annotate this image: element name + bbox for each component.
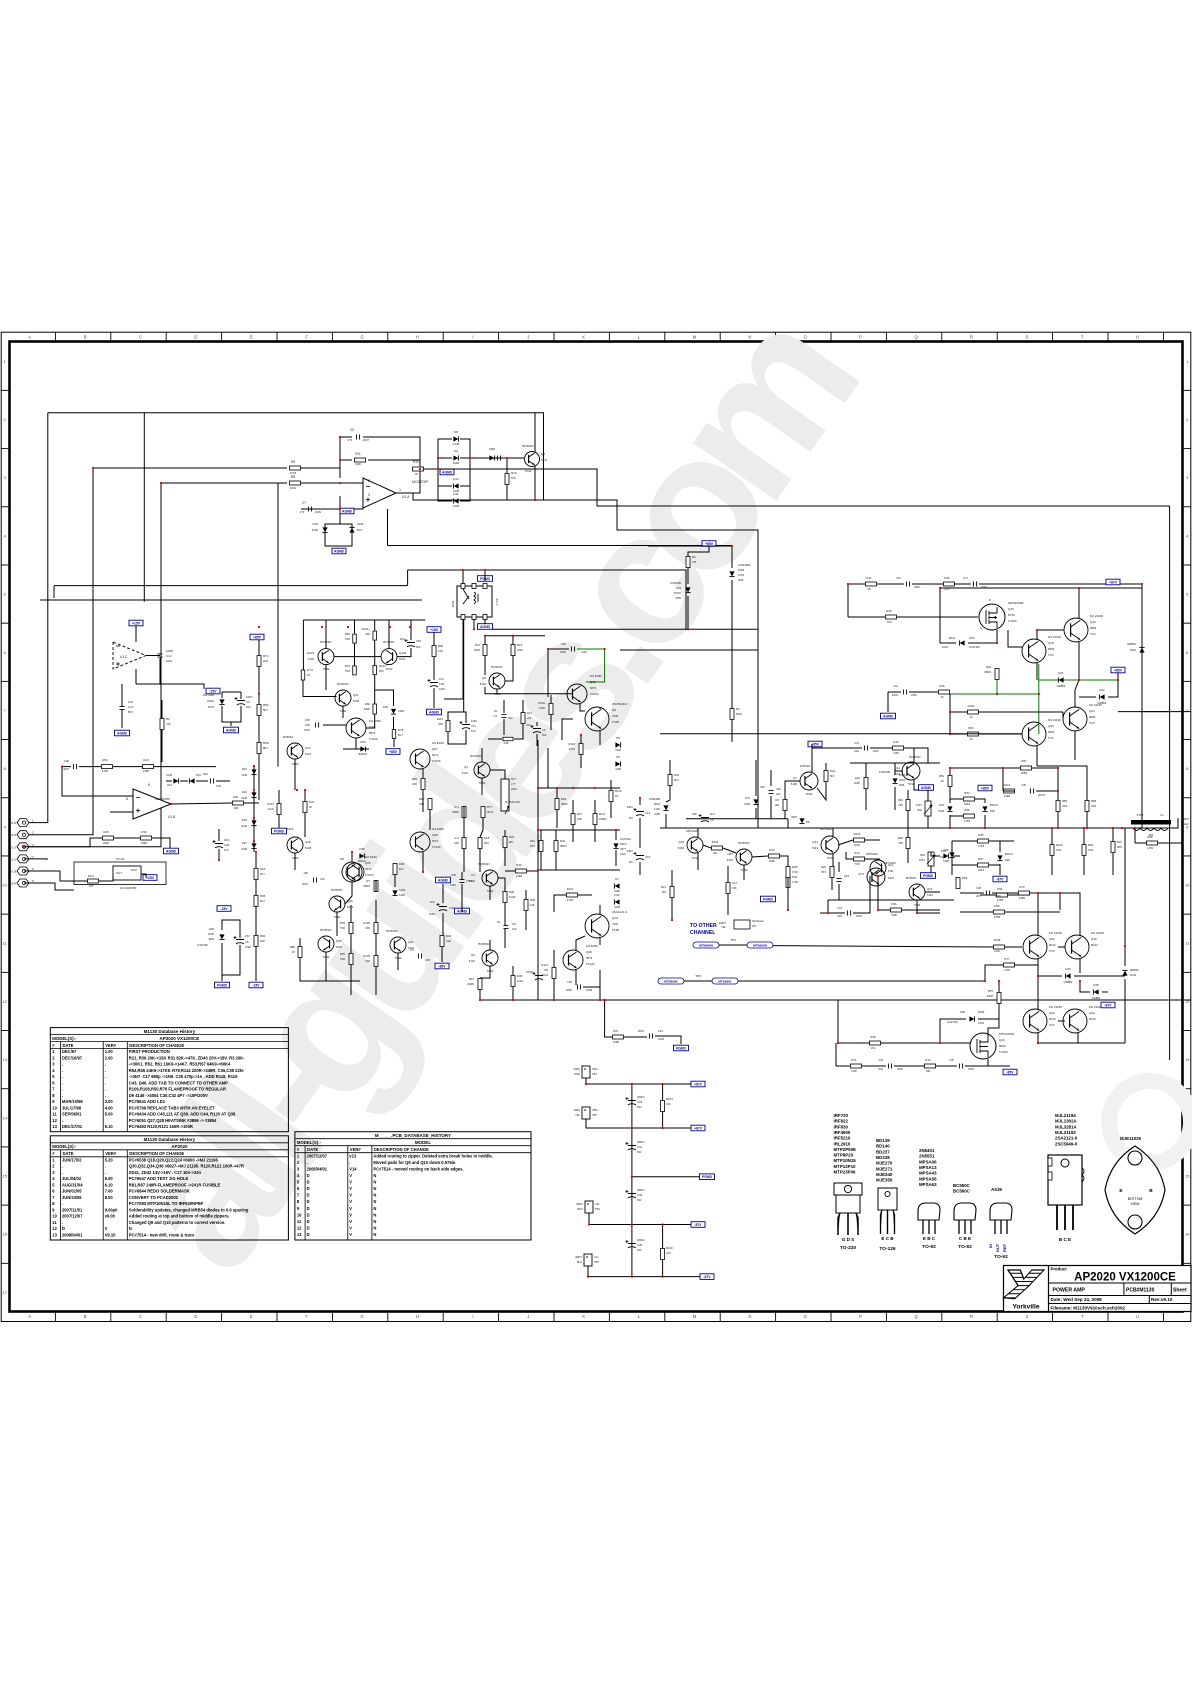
svg-text:R67: R67 — [613, 1029, 619, 1033]
capacitor C4 — [502, 714, 507, 717]
svg-text:18V0: 18V0 — [899, 778, 906, 782]
net label AGND ZD40 — [224, 727, 239, 733]
svg-text:G: G — [360, 334, 363, 339]
package TO-92 (CBE) — [954, 1203, 976, 1220]
svg-text:R51: R51 — [939, 774, 945, 778]
svg-text:63V: 63V — [637, 1248, 642, 1252]
svg-text:AGND: AGND — [334, 549, 345, 553]
svg-text:R11: R11 — [355, 452, 361, 456]
svg-text:V: V — [349, 1180, 352, 1185]
svg-text:U1.C: U1.C — [120, 655, 128, 659]
svg-text:R74: R74 — [263, 654, 269, 658]
wire L1 — [463, 806, 465, 826]
svg-text:BC560C: BC560C — [906, 876, 917, 880]
svg-text:DEC/17/01: DEC/17/01 — [62, 1124, 83, 1129]
svg-text:C4: C4 — [471, 873, 475, 877]
svg-text:8K7: 8K7 — [830, 774, 835, 778]
svg-text:R49: R49 — [986, 665, 992, 669]
svg-text:Added routing to zipper. Delet: Added routing to zipper. Deleted extra b… — [373, 1153, 492, 1158]
svg-text:G: G — [980, 626, 982, 630]
svg-text:1K: 1K — [414, 472, 418, 476]
svg-text:6R10: 6R10 — [1089, 1017, 1096, 1021]
svg-text:JUN/17/02: JUN/17/02 — [62, 1157, 82, 1162]
transistor Q18b MJ21196 — [1022, 639, 1046, 663]
svg-text:TP9: TP9 — [730, 938, 736, 942]
svg-text:C3: C3 — [710, 818, 714, 822]
svg-text:R73: R73 — [925, 1058, 931, 1062]
svg-text:4148: 4148 — [453, 504, 460, 508]
svg-text:2N5401: 2N5401 — [919, 1148, 935, 1153]
capacitor C14 — [120, 706, 125, 709]
svg-text:1?W: 1?W — [886, 620, 892, 624]
wire R116 left drop — [53, 586, 55, 598]
svg-text:D38: D38 — [359, 847, 365, 851]
wire R44 R52 — [907, 790, 909, 799]
svg-text:Q12: Q12 — [894, 766, 900, 770]
svg-text:R81,R87 249R-FLAMEPROOF ->241R: R81,R87 249R-FLAMEPROOF ->241R FUSIBLE — [129, 1182, 221, 1187]
svg-text:TO OTHER: TO OTHER — [690, 923, 717, 929]
svg-text:10R: 10R — [438, 722, 443, 726]
resistor R10 — [143, 765, 154, 769]
resistor R18b — [478, 838, 482, 849]
diode D9b — [799, 818, 804, 823]
capacitor C23 — [649, 1034, 652, 1039]
transistor Q27 MJE340 — [410, 749, 430, 769]
wire Q col1 — [688, 546, 709, 556]
resistor R34b — [769, 854, 780, 858]
svg-text:TO3: TO3 — [1090, 632, 1096, 636]
svg-text:16V: 16V — [471, 729, 476, 733]
svg-text:JUN/23/06: JUN/23/06 — [62, 1195, 82, 1200]
resistor R90 — [353, 634, 357, 643]
svg-text:6U7: 6U7 — [710, 812, 715, 816]
capacitor C5 — [236, 939, 244, 941]
svg-text:4148: 4148 — [453, 442, 460, 446]
svg-text:C43, D46. ADD TAB TO CONNECT T: C43, D46. ADD TAB TO CONNECT TO OTHER AM… — [129, 1080, 228, 1085]
svg-text:1K: 1K — [969, 737, 972, 741]
svg-text:47K: 47K — [166, 722, 171, 726]
svg-text:C109: C109 — [399, 888, 406, 892]
svg-text:BC560C: BC560C — [478, 862, 490, 866]
svg-text:7004: 7004 — [612, 922, 619, 926]
svg-text:160V: 160V — [968, 1067, 974, 1071]
svg-text:Q20: Q20 — [1048, 724, 1054, 728]
svg-text:R92: R92 — [365, 702, 371, 706]
wire M — [580, 735, 582, 743]
svg-text:10R: 10R — [438, 649, 443, 653]
svg-text:5102: 5102 — [480, 682, 487, 686]
svg-text:50V: 50V — [128, 710, 133, 714]
zener ZD40 1N4745A — [219, 699, 224, 704]
svg-text:100M: 100M — [166, 649, 174, 653]
capacitor C38 — [986, 891, 989, 896]
svg-text:17K8: 17K8 — [964, 819, 971, 823]
svg-text:6168: 6168 — [943, 859, 949, 863]
svg-text:R55: R55 — [978, 833, 984, 837]
diode D28 BAV21 — [982, 806, 987, 811]
svg-text:16V2: 16V2 — [942, 645, 949, 649]
svg-text:5101: 5101 — [399, 657, 406, 661]
resistor R103b — [1050, 845, 1054, 856]
svg-text:R35: R35 — [509, 890, 515, 894]
resistor R67 — [613, 1035, 624, 1039]
zener ZD41L — [663, 805, 668, 810]
svg-text:IRF4905: IRF4905 — [834, 1130, 851, 1135]
diode ladder D27 — [251, 843, 256, 848]
svg-text:24R6: 24R6 — [143, 769, 150, 773]
svg-text:D: D — [307, 1232, 310, 1237]
svg-text:Added routing at top and botto: Added routing at top and bottom of middl… — [129, 1214, 230, 1219]
svg-text:R96: R96 — [891, 902, 897, 906]
svg-text:PRB: PRB — [891, 913, 897, 917]
net label PGND R — [674, 1045, 689, 1051]
svg-text:4N7: 4N7 — [976, 894, 981, 898]
svg-text:R53: R53 — [964, 791, 970, 795]
relay K1-A — [457, 586, 492, 617]
svg-text:04R: 04R — [454, 841, 459, 845]
resistor R7 — [481, 807, 485, 818]
svg-text:MRB54: MRB54 — [1130, 968, 1139, 972]
table M1130 Database History (top) — [50, 1028, 288, 1132]
svg-text:D13: D13 — [167, 783, 172, 787]
svg-text:R120: R120 — [538, 701, 545, 705]
svg-text:2K5: 2K5 — [365, 926, 370, 930]
resistor R30 — [141, 836, 152, 840]
svg-text:R30: R30 — [141, 830, 147, 834]
svg-text:MTB6661: MTB6661 — [718, 979, 732, 983]
svg-text:18K0: 18K0 — [517, 648, 524, 652]
net label AGND A — [340, 508, 354, 514]
diode D24v MRB54 — [1122, 971, 1127, 976]
svg-text:R95: R95 — [994, 904, 1000, 908]
svg-text:TO92: TO92 — [386, 667, 393, 671]
svg-text:C36: C36 — [1021, 783, 1026, 787]
svg-text:4524: 4524 — [511, 787, 517, 791]
svg-text:P: P — [859, 1314, 862, 1319]
transistor Q14 BC560C — [909, 884, 925, 900]
net label +87V psu2 — [691, 1125, 705, 1131]
wire R67 C23 — [605, 1000, 612, 1037]
resistor R11 — [355, 458, 366, 462]
svg-text:+15V: +15V — [430, 628, 439, 632]
svg-text:6873: 6873 — [365, 867, 372, 871]
transistor Q28 MJE350 — [410, 832, 430, 852]
svg-text:10V0: 10V0 — [738, 573, 745, 577]
svg-text:R.1: R.1 — [455, 805, 460, 809]
svg-text:D: D — [307, 1173, 310, 1178]
svg-text:OUT: OUT — [995, 1243, 1000, 1252]
svg-text:TSR: TSR — [345, 669, 350, 673]
svg-text:BAV21: BAV21 — [990, 803, 998, 807]
svg-text:F: F — [305, 1314, 308, 1319]
resistor R77 — [1004, 963, 1015, 967]
svg-text:1N4732A: 1N4732A — [620, 837, 631, 841]
svg-text:R26: R26 — [792, 875, 798, 879]
svg-text:W1.R: W1.R — [9, 821, 16, 825]
svg-text:17: 17 — [2, 1290, 7, 1295]
svg-text:470R: 470R — [539, 706, 545, 710]
zener ZD3 — [685, 587, 690, 592]
svg-text:5103: 5103 — [678, 846, 685, 850]
resistor R80 — [298, 947, 302, 958]
diode C109 — [392, 890, 397, 895]
svg-text:BC550C: BC550C — [478, 942, 490, 946]
svg-text:8C7: 8C7 — [260, 872, 265, 876]
capacitor C16 — [906, 582, 909, 587]
wire N — [554, 895, 566, 912]
net label -15V Ib — [249, 982, 263, 988]
svg-text:R80: R80 — [290, 945, 296, 949]
wire Q2 collector — [534, 413, 536, 452]
transistor QK 2N5401 — [346, 863, 364, 881]
svg-text:R37: R37 — [469, 977, 475, 981]
svg-text:MJL21193: MJL21193 — [1055, 1130, 1076, 1135]
diode D17 — [349, 528, 354, 533]
svg-text:R1E3: R1E3 — [1182, 822, 1189, 826]
svg-text:MJ E350: MJ E350 — [432, 827, 444, 831]
svg-text:250V: 250V — [638, 1029, 644, 1033]
svg-text:AGND: AGND — [117, 731, 128, 735]
svg-text:100V: 100V — [581, 650, 587, 654]
terminal TB1 — [582, 1066, 590, 1078]
svg-text:249R: 249R — [1019, 896, 1025, 900]
transistor Q38 MJE350 — [567, 684, 587, 704]
wire Q2 emitter row — [413, 466, 535, 500]
svg-text:C43: C43 — [844, 874, 849, 878]
resistor R121 — [552, 968, 556, 979]
svg-text:R12: R12 — [475, 643, 481, 647]
svg-text:?K8: ?K8 — [855, 862, 860, 866]
svg-text:R50: R50 — [968, 726, 974, 730]
resistor R24 — [854, 857, 865, 861]
resistor R47 — [866, 582, 877, 586]
svg-text:->30K1. R52, R61 16K9->14K7. R: ->30K1. R52, R61 16K9->14K7. R53,R57 64K… — [129, 1062, 231, 1067]
wire mid row 694 — [485, 693, 573, 695]
svg-text:BAW21: BAW21 — [359, 752, 368, 756]
svg-text:BC560C: BC560C — [738, 841, 750, 845]
svg-text:R90: R90 — [345, 632, 351, 636]
svg-text:B: B — [84, 1314, 87, 1319]
svg-text:IRF720: IRF720 — [834, 1113, 849, 1118]
resistor R8 — [290, 481, 301, 485]
svg-text:C25: C25 — [949, 1058, 954, 1062]
svg-text:OR1: OR1 — [1088, 848, 1094, 852]
svg-text:N: N — [373, 1193, 376, 1198]
svg-text:D: D — [307, 1193, 310, 1198]
package TO-126 — [878, 1188, 897, 1210]
svg-text:S: S — [1026, 1314, 1029, 1319]
svg-text:R60: R60 — [920, 853, 925, 857]
svg-text:OUT: OUT — [116, 871, 122, 875]
transistor Q25 MJE340 — [342, 862, 362, 882]
resistor R62b — [906, 838, 910, 849]
svg-text:.: . — [105, 1164, 106, 1169]
svg-text:1K3: 1K3 — [661, 890, 666, 894]
svg-text:R: R — [970, 334, 973, 339]
svg-text:200?: 200? — [363, 438, 370, 442]
resistor R117 — [88, 879, 99, 883]
resistor R82c — [254, 936, 258, 947]
svg-text:330U: 330U — [627, 805, 633, 809]
resistor R99 — [440, 936, 444, 947]
svg-text:V: V — [349, 1225, 352, 1230]
svg-text:47R0: 47R0 — [102, 769, 109, 773]
svg-text:R106: R106 — [363, 954, 370, 958]
wire R77 — [738, 980, 985, 982]
transistor Q12 BC550C — [902, 762, 920, 780]
svg-text:1K0R: 1K0R — [509, 895, 516, 899]
capacitor C82 — [769, 790, 774, 793]
svg-text:.: . — [62, 1062, 63, 1067]
wire K — [422, 769, 424, 778]
svg-text:Q129: Q129 — [399, 651, 407, 655]
resistor R49 — [995, 669, 999, 680]
svg-text:R108: R108 — [994, 938, 1001, 942]
wire R2 — [161, 700, 163, 718]
shutdown box — [734, 920, 750, 929]
svg-text:MTP23P06: MTP23P06 — [999, 1032, 1014, 1036]
svg-text:16V: 16V — [628, 816, 633, 820]
svg-text:1N: 1N — [494, 709, 497, 713]
diode D21 MRB54 — [1059, 677, 1064, 682]
zener ZD4 — [729, 571, 734, 576]
svg-text:TO3: TO3 — [1089, 721, 1095, 725]
svg-text:.: . — [105, 1068, 106, 1073]
svg-text:A7R5: A7R5 — [994, 915, 1001, 919]
svg-text:R79: R79 — [1019, 885, 1025, 889]
svg-text:MJ 21196: MJ 21196 — [1048, 718, 1061, 722]
svg-text:C18: C18 — [216, 784, 221, 788]
svg-text:Q15: Q15 — [1008, 607, 1014, 611]
resistor R82b — [102, 765, 113, 769]
svg-text:MTP10N15: MTP10N15 — [834, 1158, 857, 1163]
svg-text:4800U: 4800U — [637, 1140, 645, 1144]
svg-text:2K: 2K — [292, 950, 295, 954]
svg-text:W1.B: W1.B — [9, 833, 16, 837]
svg-text:AP2020: AP2020 — [171, 1144, 188, 1149]
svg-text:W1.R: W1.R — [9, 882, 16, 886]
svg-text:12R0: 12R0 — [613, 1040, 620, 1044]
svg-text:R98: R98 — [399, 862, 405, 866]
svg-text:R.4: R.4 — [455, 836, 460, 840]
svg-text:9.00p0: 9.00p0 — [105, 1207, 118, 1212]
svg-text:BD140: BD140 — [876, 1144, 890, 1149]
svg-text:C29: C29 — [637, 1100, 643, 1104]
wire L2 — [489, 886, 491, 900]
svg-text:BC560C: BC560C — [331, 888, 343, 892]
inductor L1 — [1131, 820, 1171, 825]
svg-text:C38: C38 — [976, 886, 981, 890]
svg-text:2?F: 2?F — [348, 438, 353, 442]
net oval MTB660K L — [658, 978, 684, 984]
svg-text:BAV21: BAV21 — [1005, 852, 1013, 856]
svg-text:Q10: Q10 — [612, 916, 618, 920]
diode D12 — [454, 483, 459, 488]
svg-text:I: I — [472, 334, 473, 339]
svg-text:3.00: 3.00 — [105, 1099, 114, 1104]
resistor R68 — [870, 1041, 881, 1045]
svg-text:MJ E340: MJ E340 — [365, 855, 377, 859]
svg-text:100V: 100V — [856, 914, 862, 918]
svg-text:JUN/02/05: JUN/02/05 — [62, 1189, 82, 1194]
svg-text:R103: R103 — [379, 664, 386, 668]
svg-text:TB2: TB2 — [592, 1113, 597, 1117]
svg-text:1N5260B: 1N5260B — [670, 581, 681, 585]
svg-text:R28: R28 — [103, 830, 109, 834]
svg-text:Filename: M1130V910sch.sch2002: Filename: M1130V910sch.sch2002 — [1051, 1305, 1126, 1310]
resistor R25 — [503, 837, 507, 848]
wire X column — [258, 640, 260, 655]
border frame — [1, 332, 1191, 1321]
svg-text:MTB660N: MTB660N — [753, 943, 767, 947]
svg-text:1K2: 1K2 — [871, 1046, 876, 1050]
wire R55 R57 — [952, 840, 977, 842]
svg-text:+85V: +85V — [705, 542, 714, 546]
svg-text:D27: D27 — [242, 841, 248, 845]
svg-text:Q16: Q16 — [678, 840, 684, 844]
transistor Q22 MJ21196 — [1064, 618, 1088, 642]
svg-text:v13: v13 — [349, 1153, 357, 1158]
svg-text:R58: R58 — [263, 741, 269, 745]
svg-text:TO-92: TO-92 — [922, 1244, 936, 1250]
wire fb2 — [166, 780, 172, 782]
svg-text:N: N — [373, 1219, 376, 1224]
svg-text:63V: 63V — [637, 1198, 642, 1202]
svg-text:D: D — [307, 1180, 310, 1185]
net label AGND O — [881, 713, 896, 719]
svg-text:Q30: Q30 — [1049, 1011, 1055, 1015]
svg-text:Q17: Q17 — [305, 746, 311, 750]
svg-text:R752: R752 — [1008, 613, 1015, 617]
svg-text:5101: 5101 — [347, 905, 354, 909]
wire top loop — [48, 413, 544, 500]
wire D22 — [1079, 696, 1096, 698]
svg-text:5: 5 — [126, 797, 128, 801]
svg-text:6148: 6148 — [357, 522, 364, 526]
capacitor C45c — [628, 1243, 636, 1245]
svg-text:.: . — [349, 1160, 350, 1165]
svg-text:R48: R48 — [944, 576, 950, 580]
svg-text:R109,R108,R50,R70 FLAMEPROOF T: R109,R108,R50,R70 FLAMEPROOF TO REGULAR — [129, 1087, 226, 1092]
capacitor C19 — [903, 690, 906, 695]
terminal TB2 — [582, 1107, 590, 1119]
svg-text:16V0: 16V0 — [208, 932, 215, 936]
svg-text:16K7: 16K7 — [919, 858, 926, 862]
wire row 763 — [850, 762, 940, 764]
transistor Q30 MJ21195 — [1023, 1009, 1047, 1033]
wire input row R8 — [161, 482, 287, 484]
svg-text:C30: C30 — [305, 723, 311, 727]
svg-text:8K7: 8K7 — [263, 708, 268, 712]
svg-text:R99: R99 — [446, 934, 452, 938]
svg-text:CONVERT TO PCAD2002: CONVERT TO PCAD2002 — [129, 1195, 179, 1200]
svg-text:Q1: Q1 — [464, 765, 468, 769]
wire E cluster — [325, 620, 327, 649]
wire long vertical 278 — [277, 483, 279, 767]
svg-text:MTP12P10: MTP12P10 — [834, 1164, 857, 1169]
svg-text:2W: 2W — [544, 968, 548, 972]
diode D6 — [615, 761, 620, 766]
svg-text:K1-A: K1-A — [495, 599, 499, 606]
connector W1 — [17, 819, 29, 827]
wire D21 net — [1117, 673, 1119, 680]
svg-text:7005: 7005 — [612, 714, 619, 718]
resistor R65 — [254, 896, 258, 907]
svg-text:R44: R44 — [898, 798, 904, 802]
wire Q32 net — [1037, 893, 1039, 935]
svg-text:AGND: AGND — [429, 710, 440, 714]
wire ZD40 C2 — [221, 692, 223, 698]
